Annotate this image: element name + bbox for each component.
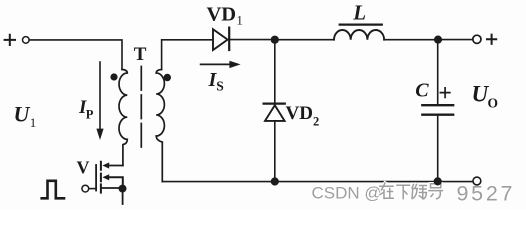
label UO: [472, 82, 499, 111]
svg-text:L: L: [352, 0, 366, 24]
wire secondary top to diode VD1: [162, 40, 213, 70]
svg-text:CSDN @: CSDN @: [312, 184, 382, 203]
MOSFET drain lead: [109, 165, 123, 167]
MOSFET gate terminal circle: [82, 185, 89, 192]
current arrow IS: [201, 61, 241, 68]
primary polarity dot: [110, 73, 117, 80]
svg-text:V: V: [77, 157, 90, 177]
current arrow IP: [96, 62, 103, 140]
output plus terminal: [473, 35, 481, 43]
watermark hanzi 在: [380, 183, 443, 199]
capacitor C plates: [422, 105, 453, 115]
svg-text:T: T: [134, 44, 147, 65]
MOSFET drain arrowhead: [102, 162, 109, 168]
MOSFET source lead: [102, 187, 123, 189]
wire node A to inductor L: [275, 39, 334, 41]
MOSFET gate bar: [95, 165, 97, 191]
node A junction dot: [271, 36, 279, 44]
secondary polarity dot: [164, 74, 171, 81]
transformer core (dashed line): [140, 67, 142, 151]
wire node B to output plus terminal: [438, 39, 473, 41]
MOSFET gate wire: [89, 188, 96, 190]
MOSFET body lead: [109, 177, 123, 188]
output minus terminal: [473, 177, 481, 185]
svg-text:1: 1: [30, 115, 37, 130]
inductor L core bar: [340, 24, 382, 26]
wire capacitor to bottom rail: [437, 116, 439, 182]
diode VD2 cathode bar: [264, 102, 285, 104]
wire input terminal to transformer primary: [29, 40, 122, 70]
svg-text:2: 2: [313, 115, 319, 129]
label IP: [78, 97, 94, 122]
node B junction dot: [434, 36, 442, 44]
MOSFET source junction dot: [119, 185, 127, 193]
wire node B down to capacitor: [437, 40, 439, 105]
MOSFET channel segments: [100, 162, 102, 193]
svg-text:1: 1: [236, 13, 243, 28]
inductor L winding: [334, 30, 384, 40]
bottom rail wire: [162, 181, 473, 183]
svg-text:VD: VD: [207, 4, 237, 26]
svg-text:S: S: [216, 79, 224, 94]
wire VD2 to bottom rail: [274, 121, 276, 182]
svg-text:U: U: [14, 102, 31, 127]
transformer primary winding: [119, 70, 127, 166]
junction dot VD2 bottom: [271, 177, 279, 185]
svg-text:VD: VD: [286, 103, 313, 124]
label U1: [14, 102, 37, 130]
svg-text:9527: 9527: [457, 182, 516, 206]
MOSFET source stub: [122, 189, 124, 204]
wire inductor to node B: [384, 39, 434, 41]
diode VD2 triangle: [265, 105, 285, 121]
MOSFET body arrowhead: [102, 174, 109, 180]
label IS: [208, 69, 224, 94]
svg-text:C: C: [415, 80, 429, 102]
wire VD1 to node A: [229, 39, 270, 41]
svg-text:O: O: [488, 96, 499, 111]
gate drive pulse symbol: [42, 181, 64, 199]
output plus sign: [487, 35, 496, 44]
svg-text:P: P: [86, 107, 94, 121]
label VD1: [207, 4, 243, 28]
capacitor plus sign: [440, 88, 449, 98]
diode VD1: [213, 28, 229, 50]
watermark CSDN: [312, 182, 516, 206]
transformer secondary winding: [156, 70, 164, 182]
junction dot capacitor bottom: [434, 177, 442, 185]
input plus terminal: [5, 35, 30, 45]
label VD2: [286, 103, 320, 129]
wire node A down to VD2: [274, 40, 276, 103]
